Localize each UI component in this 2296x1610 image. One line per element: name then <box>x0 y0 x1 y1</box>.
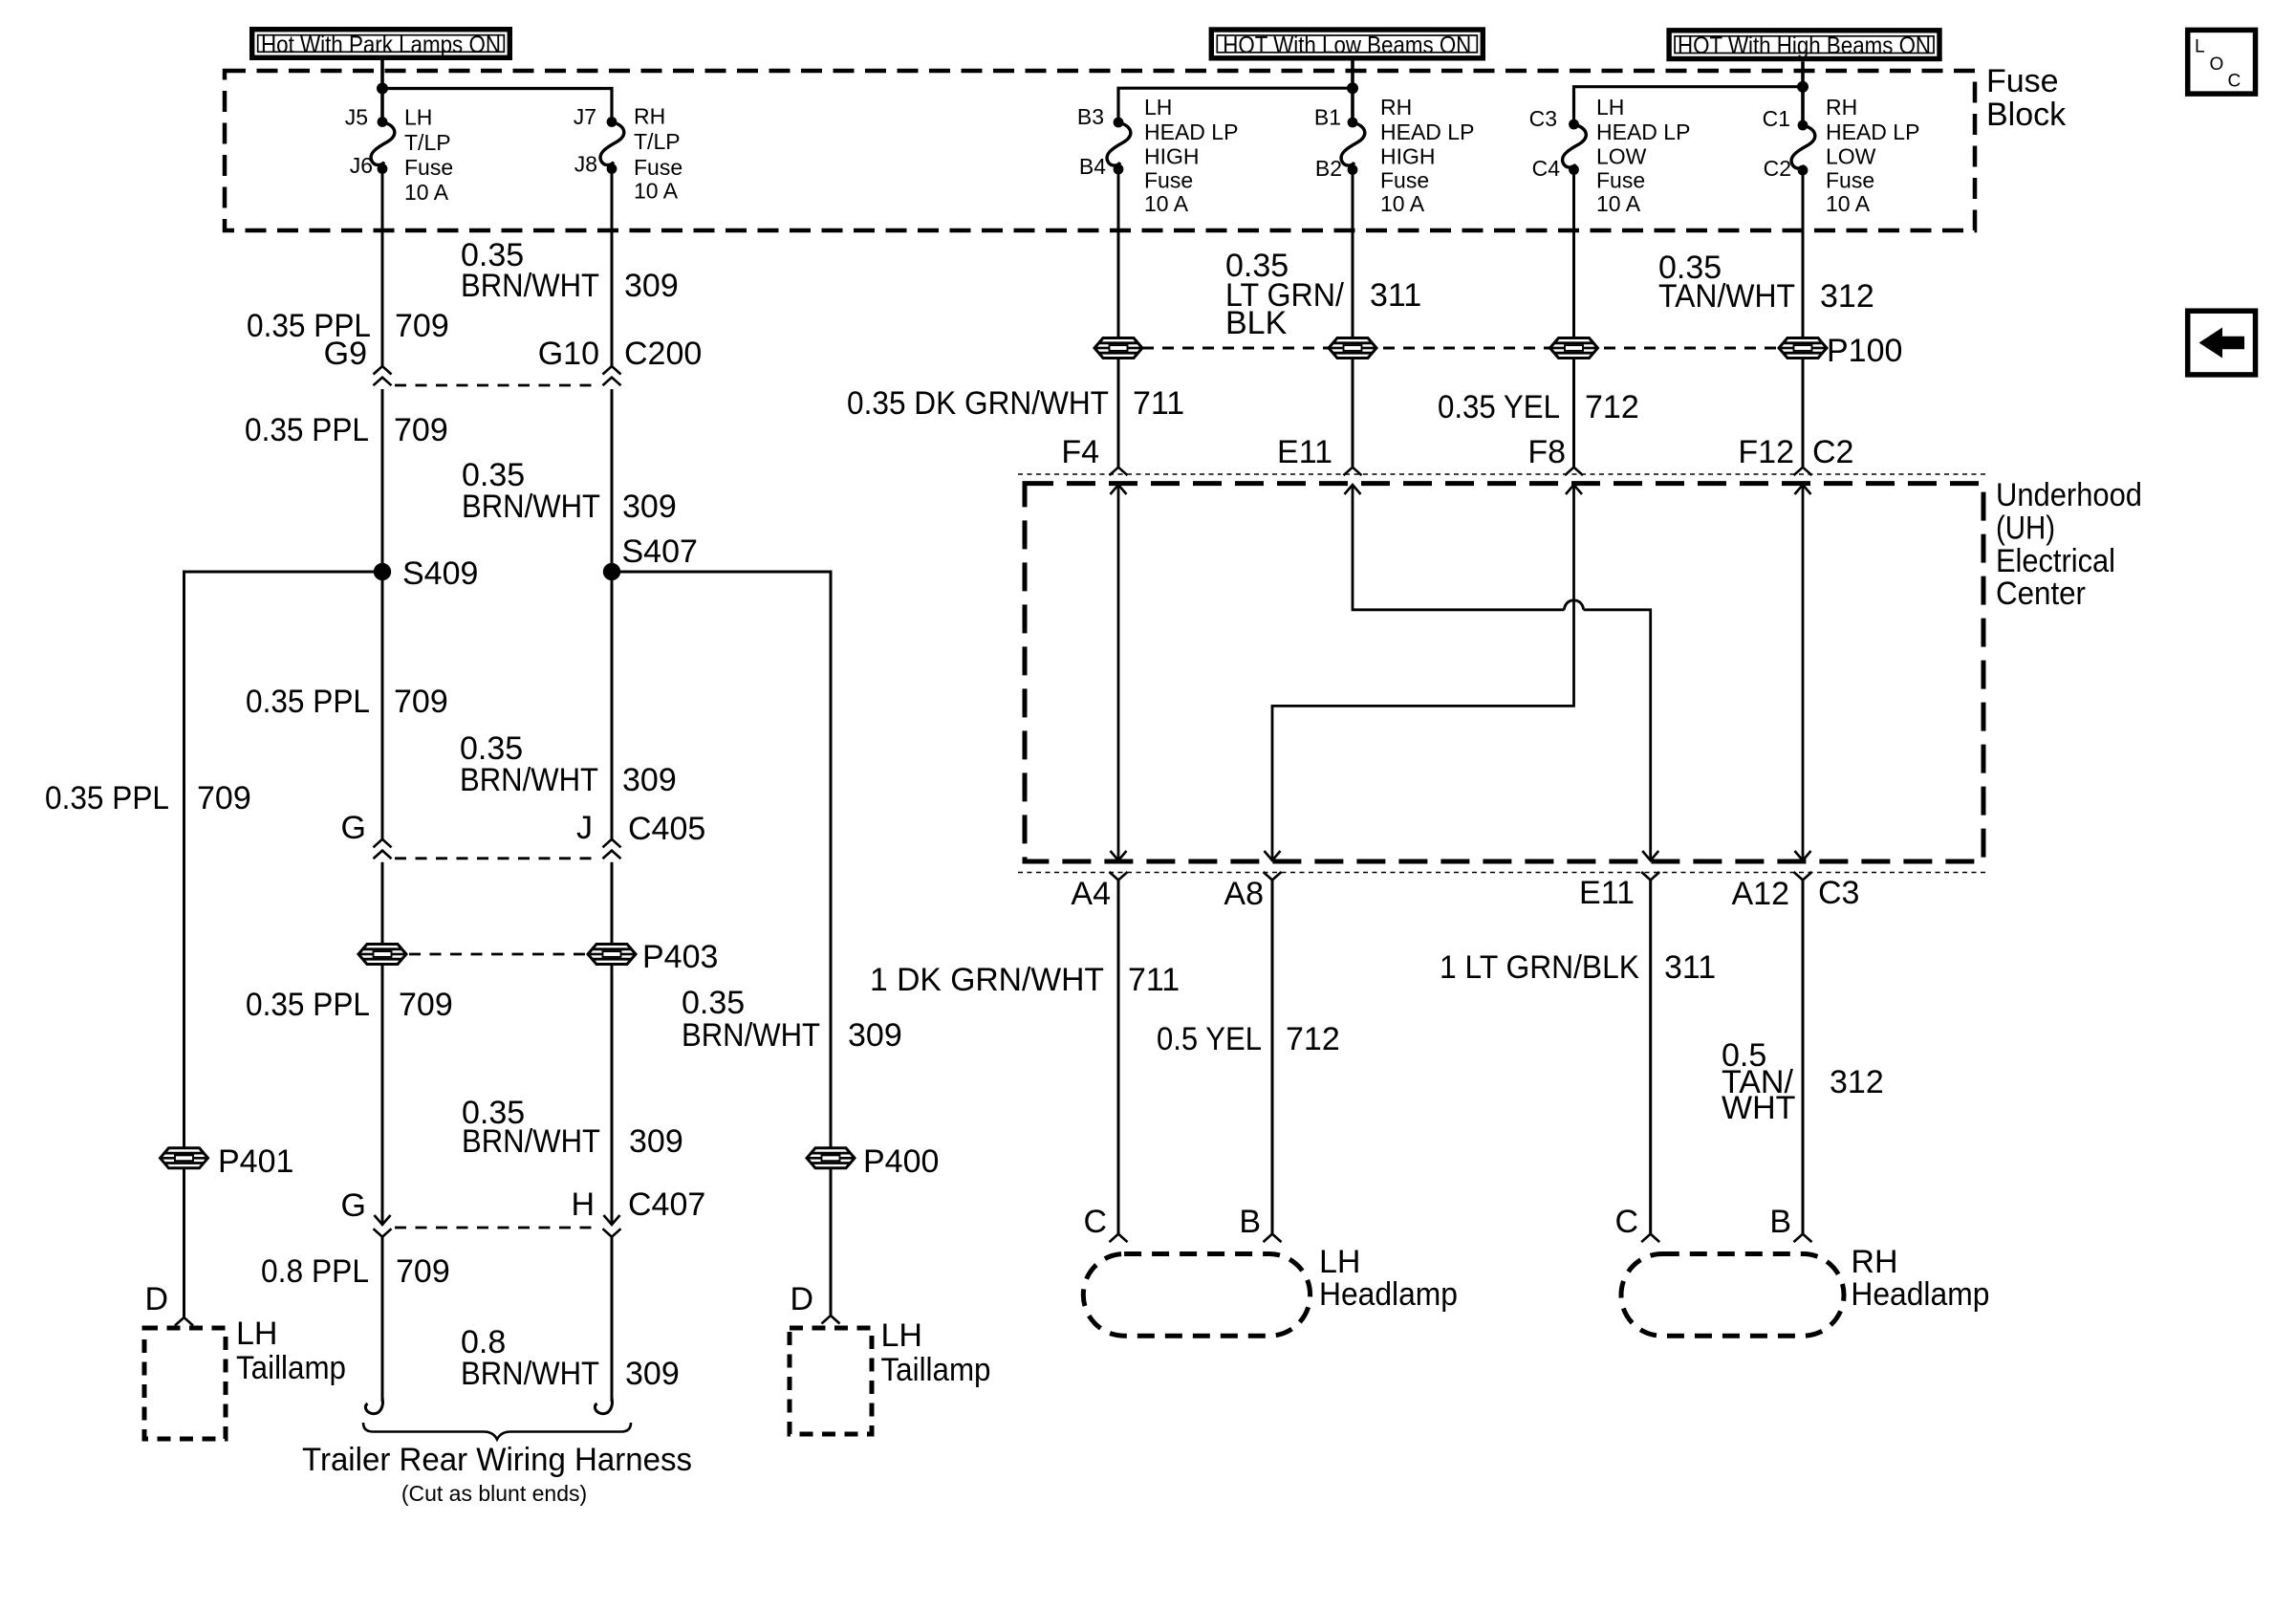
UH internal wire: F8 to A8 (crossover) <box>1272 485 1574 860</box>
wire: feed branch to LH HEAD LP LOW fuse <box>1574 87 1804 124</box>
svg-text:0.35 PPL: 0.35 PPL <box>45 780 169 816</box>
svg-text:712: 712 <box>1585 389 1639 425</box>
svg-text:LOW: LOW <box>1826 143 1876 168</box>
svg-text:309: 309 <box>622 489 677 525</box>
svg-text:BRN/WHT: BRN/WHT <box>462 489 600 525</box>
svg-text:D: D <box>144 1281 168 1317</box>
svg-text:C: C <box>1083 1204 1107 1240</box>
svg-text:B2: B2 <box>1315 156 1342 181</box>
svg-text:309: 309 <box>622 762 677 798</box>
svg-text:Headlamp: Headlamp <box>1319 1276 1458 1313</box>
wire: feed branch to LH HEAD LP HIGH fuse <box>1118 88 1353 122</box>
svg-text:LOW: LOW <box>1596 143 1647 168</box>
svg-text:Fuse: Fuse <box>1380 167 1429 192</box>
UH internal wire: F12/C2 to A12/C3 <box>1802 485 1805 861</box>
svg-text:RH: RH <box>634 104 665 129</box>
svg-text:709: 709 <box>399 987 453 1023</box>
svg-text:709: 709 <box>197 780 251 816</box>
svg-text:Fuse: Fuse <box>404 155 453 180</box>
wire: circuit 711 from fuse B4 to UH connector F4 <box>1117 169 1120 468</box>
wire: circuit 309 from fuse J8 to connector C200 <box>611 169 614 367</box>
svg-text:0.35 PPL: 0.35 PPL <box>246 684 370 720</box>
svg-text:0.35 PPL: 0.35 PPL <box>246 987 370 1023</box>
svg-text:(UH): (UH) <box>1996 511 2055 547</box>
svg-text:J8: J8 <box>574 152 597 177</box>
UH internal wire: F4 to A4 <box>1117 485 1120 861</box>
connector P400 on right taillamp leg <box>807 1148 855 1168</box>
svg-text:F4: F4 <box>1061 434 1099 470</box>
svg-text:RH: RH <box>1851 1244 1897 1280</box>
svg-text:P100: P100 <box>1827 333 1902 369</box>
UH internal wire: E11 to E11 (crossover, hops over F8 wire) <box>1353 485 1565 610</box>
svg-text:B3: B3 <box>1077 104 1104 129</box>
svg-text:10 A: 10 A <box>1144 191 1189 216</box>
svg-text:HEAD LP: HEAD LP <box>1826 120 1919 144</box>
wire: circuit 709 from S409 to connector C405 <box>381 572 384 839</box>
svg-text:311: 311 <box>1370 277 1421 314</box>
svg-text:C405: C405 <box>628 811 705 847</box>
svg-text:309: 309 <box>624 268 679 304</box>
svg-text:10 A: 10 A <box>404 180 449 205</box>
svg-text:E11: E11 <box>1579 875 1635 911</box>
svg-text:T/LP: T/LP <box>634 129 681 154</box>
svg-text:H: H <box>571 1186 595 1223</box>
wire: low beam feed from header into fuse block <box>1351 61 1354 123</box>
svg-text:HEAD LP: HEAD LP <box>1144 120 1238 144</box>
svg-text:WHT: WHT <box>1722 1090 1795 1126</box>
svg-text:0.35 DK GRN/WHT: 0.35 DK GRN/WHT <box>847 385 1109 422</box>
wire: circuit 709 from C200 to splice S409 <box>381 389 384 572</box>
fuse RH T/LP 10A (pins J7-J8) <box>600 122 624 165</box>
brace: trailer rear wiring harness <box>363 1423 631 1440</box>
svg-text:S407: S407 <box>622 533 698 570</box>
wire: circuit 311 from fuse B2 to UH connector E11 <box>1352 170 1354 468</box>
svg-text:Taillamp: Taillamp <box>236 1350 346 1386</box>
svg-text:(Cut as blunt ends): (Cut as blunt ends) <box>401 1481 587 1506</box>
svg-text:C2: C2 <box>1764 156 1791 181</box>
wire: park lamp feed from header into fuse block <box>380 60 384 122</box>
fuse LH HEAD LP LOW 10A (pins C3-C4) <box>1563 124 1587 167</box>
junction node on park lamp feed <box>377 83 388 95</box>
cut blunt end of 709 lead <box>365 1398 382 1414</box>
svg-text:C1: C1 <box>1763 106 1790 131</box>
fuse RH HEAD LP HIGH 10A (pins B1-B2) <box>1341 122 1365 165</box>
svg-text:Fuse: Fuse <box>1596 167 1645 192</box>
svg-text:Fuse: Fuse <box>1144 167 1193 192</box>
fuse block dashed outline <box>225 71 1975 230</box>
svg-text:0.35 YEL: 0.35 YEL <box>1438 389 1560 425</box>
svg-text:HIGH: HIGH <box>1380 143 1436 168</box>
wire: feed branch to RH T/LP fuse <box>382 89 612 122</box>
svg-text:312: 312 <box>1820 278 1874 315</box>
svg-text:Electrical: Electrical <box>1996 543 2115 579</box>
connector P403 (pair, dashed link) <box>358 945 406 965</box>
svg-text:309: 309 <box>848 1017 902 1054</box>
svg-text:P401: P401 <box>218 1143 293 1180</box>
svg-text:G10: G10 <box>538 336 599 372</box>
svg-text:B1: B1 <box>1314 105 1341 130</box>
svg-text:BRN/WHT: BRN/WHT <box>461 268 599 304</box>
svg-text:10 A: 10 A <box>1826 191 1871 216</box>
svg-text:C200: C200 <box>624 336 702 372</box>
svg-text:HEAD LP: HEAD LP <box>1380 120 1474 144</box>
svg-text:C: C <box>2228 72 2242 92</box>
svg-text:G: G <box>341 810 366 846</box>
svg-text:0.35 PPL: 0.35 PPL <box>245 412 369 448</box>
svg-text:G9: G9 <box>324 336 367 372</box>
wire: circuit 712 from fuse C4 to UH connector F8 <box>1572 170 1575 468</box>
svg-text:C4: C4 <box>1532 156 1561 181</box>
svg-text:HOT With Low Beams ON: HOT With Low Beams ON <box>1223 32 1471 58</box>
svg-text:J: J <box>576 810 593 846</box>
svg-text:J5: J5 <box>345 105 368 130</box>
RH headlamp (dashed outline) <box>1621 1254 1844 1337</box>
junction node on high beam feed <box>1797 81 1809 93</box>
svg-text:C407: C407 <box>628 1186 705 1223</box>
svg-text:TAN/WHT: TAN/WHT <box>1658 278 1795 315</box>
wire: high beam feed from header into fuse block <box>1801 61 1805 124</box>
svg-text:Fuse: Fuse <box>1986 63 2059 99</box>
svg-text:Fuse: Fuse <box>634 155 682 180</box>
LH headlamp (dashed outline) <box>1083 1254 1310 1337</box>
svg-text:LH: LH <box>1596 95 1624 120</box>
wire: branch from S409 to LH taillamp (left leg) <box>184 572 383 1317</box>
svg-text:LH: LH <box>881 1317 922 1354</box>
svg-text:G: G <box>341 1187 366 1224</box>
svg-text:A4: A4 <box>1071 876 1111 912</box>
wire: circuit 712 from A8 to LH headlamp pin B <box>1271 881 1274 1234</box>
svg-text:Taillamp: Taillamp <box>881 1352 991 1388</box>
svg-text:10 A: 10 A <box>1380 191 1425 216</box>
wire: circuit 312 from fuse C2 to UH connector F12 <box>1802 170 1805 468</box>
svg-text:709: 709 <box>394 412 448 448</box>
svg-text:LH: LH <box>236 1316 277 1352</box>
svg-text:Fuse: Fuse <box>1826 167 1874 192</box>
svg-text:709: 709 <box>396 1253 450 1290</box>
svg-text:HIGH: HIGH <box>1144 143 1200 168</box>
connector P401 on left taillamp leg <box>161 1148 208 1168</box>
LH taillamp (dashed box, left) <box>144 1328 226 1439</box>
svg-text:10 A: 10 A <box>1596 191 1641 216</box>
svg-text:E11: E11 <box>1277 434 1332 470</box>
svg-text:P403: P403 <box>642 939 718 975</box>
wire: circuit 309 from C405 to connector C407 <box>611 862 614 1225</box>
header label: HOT With Low Beams ON <box>1211 30 1483 58</box>
svg-text:P400: P400 <box>863 1143 939 1180</box>
svg-text:L: L <box>2195 37 2205 57</box>
svg-text:C: C <box>1614 1204 1638 1240</box>
svg-text:0.35: 0.35 <box>682 985 745 1021</box>
svg-text:711: 711 <box>1128 962 1180 998</box>
svg-text:709: 709 <box>394 684 448 720</box>
wire: circuit 311 from E11 to RH headlamp pin C <box>1649 881 1652 1234</box>
cut blunt end of 309 lead <box>595 1398 612 1414</box>
svg-text:712: 712 <box>1286 1021 1340 1057</box>
wire: circuit 309 from C200 to splice S407 <box>611 389 614 572</box>
svg-text:Headlamp: Headlamp <box>1851 1276 1989 1313</box>
fuse LH T/LP 10A (pins J5-J6) <box>371 122 395 165</box>
svg-text:LH: LH <box>404 105 432 130</box>
svg-text:F12: F12 <box>1738 434 1794 470</box>
svg-text:C2: C2 <box>1812 434 1853 470</box>
svg-text:Center: Center <box>1996 576 2086 612</box>
back-arrow reference box <box>2188 311 2256 375</box>
connector row A4 / A8 / E11 / A12 C3 (out of UH electrical center) <box>1018 872 1986 874</box>
svg-text:711: 711 <box>1133 385 1184 422</box>
svg-text:BRN/WHT: BRN/WHT <box>682 1017 820 1054</box>
svg-text:LH: LH <box>1319 1244 1360 1280</box>
svg-text:HEAD LP: HEAD LP <box>1596 120 1690 144</box>
wire: circuit 312 from A12/C3 to RH headlamp pin B <box>1802 881 1805 1234</box>
svg-text:T/LP: T/LP <box>404 130 451 155</box>
svg-text:B: B <box>1769 1204 1791 1240</box>
svg-text:BRN/WHT: BRN/WHT <box>462 1123 600 1160</box>
wire: circuit 709 trailer harness lead <box>381 1237 384 1402</box>
svg-text:C3: C3 <box>1529 106 1557 131</box>
connector P100 (bulkhead pass-through, dashed row) <box>1142 347 1778 350</box>
fuse LH HEAD LP HIGH 10A (pins B3-B4) <box>1107 122 1131 165</box>
svg-text:S409: S409 <box>402 555 478 592</box>
svg-text:311: 311 <box>1664 949 1716 986</box>
svg-text:Block: Block <box>1986 97 2067 133</box>
svg-text:RH: RH <box>1380 95 1412 120</box>
svg-text:0.5 YEL: 0.5 YEL <box>1157 1021 1262 1057</box>
wire: circuit 309 from S407 to connector C405 <box>611 572 614 839</box>
svg-text:B: B <box>1239 1204 1261 1240</box>
LH taillamp (dashed box, trailer side) <box>790 1328 872 1434</box>
wire: branch from S407 to LH taillamp (right leg) <box>612 572 831 1316</box>
header label: HOT With High Beams ON <box>1669 31 1939 59</box>
svg-text:709: 709 <box>395 308 449 344</box>
splice S407 <box>603 563 620 580</box>
splice S409 <box>374 563 391 580</box>
svg-text:1 DK GRN/WHT: 1 DK GRN/WHT <box>870 962 1104 998</box>
svg-text:O: O <box>2210 54 2224 75</box>
svg-text:309: 309 <box>625 1356 680 1392</box>
svg-text:1 LT GRN/BLK: 1 LT GRN/BLK <box>1440 949 1639 986</box>
wire: circuit 309 trailer harness lead <box>611 1237 614 1402</box>
svg-text:J7: J7 <box>574 104 596 129</box>
svg-text:A12: A12 <box>1732 876 1790 912</box>
svg-text:D: D <box>790 1281 813 1317</box>
svg-text:Underhood: Underhood <box>1996 477 2142 513</box>
svg-text:10 A: 10 A <box>634 179 679 204</box>
svg-text:309: 309 <box>629 1123 683 1160</box>
wire: circuit 711 from A4 to LH headlamp pin C <box>1117 881 1120 1234</box>
header label: Hot With Park Lamps ON <box>252 30 510 58</box>
svg-text:RH: RH <box>1826 95 1857 120</box>
svg-text:A8: A8 <box>1224 876 1264 912</box>
svg-text:BLK: BLK <box>1225 305 1288 341</box>
svg-text:HOT With High Beams ON: HOT With High Beams ON <box>1678 33 1931 59</box>
svg-text:B4: B4 <box>1079 154 1106 179</box>
Underhood (UH) Electrical Center dashed box <box>1025 484 1983 861</box>
svg-text:F8: F8 <box>1527 434 1566 470</box>
svg-text:BRN/WHT: BRN/WHT <box>460 762 598 798</box>
svg-text:0.8 PPL: 0.8 PPL <box>261 1253 369 1290</box>
svg-text:BRN/WHT: BRN/WHT <box>461 1356 599 1392</box>
svg-text:LH: LH <box>1144 95 1172 120</box>
svg-text:Hot With Park Lamps ON: Hot With Park Lamps ON <box>261 32 501 58</box>
svg-text:312: 312 <box>1830 1064 1884 1100</box>
fuse RH HEAD LP LOW 10A (pins C1-C2) <box>1791 125 1815 168</box>
svg-text:J6: J6 <box>350 153 373 178</box>
wire: circuit 709 from C405 to connector C407 <box>381 862 384 1225</box>
wire: circuit 709 from fuse J6 to connector C200 <box>381 169 384 367</box>
location reference box L-O-C <box>2188 30 2256 94</box>
svg-text:Trailer Rear Wiring Harness: Trailer Rear Wiring Harness <box>302 1442 692 1478</box>
svg-text:C3: C3 <box>1818 875 1859 911</box>
junction node on low beam feed <box>1347 82 1358 94</box>
